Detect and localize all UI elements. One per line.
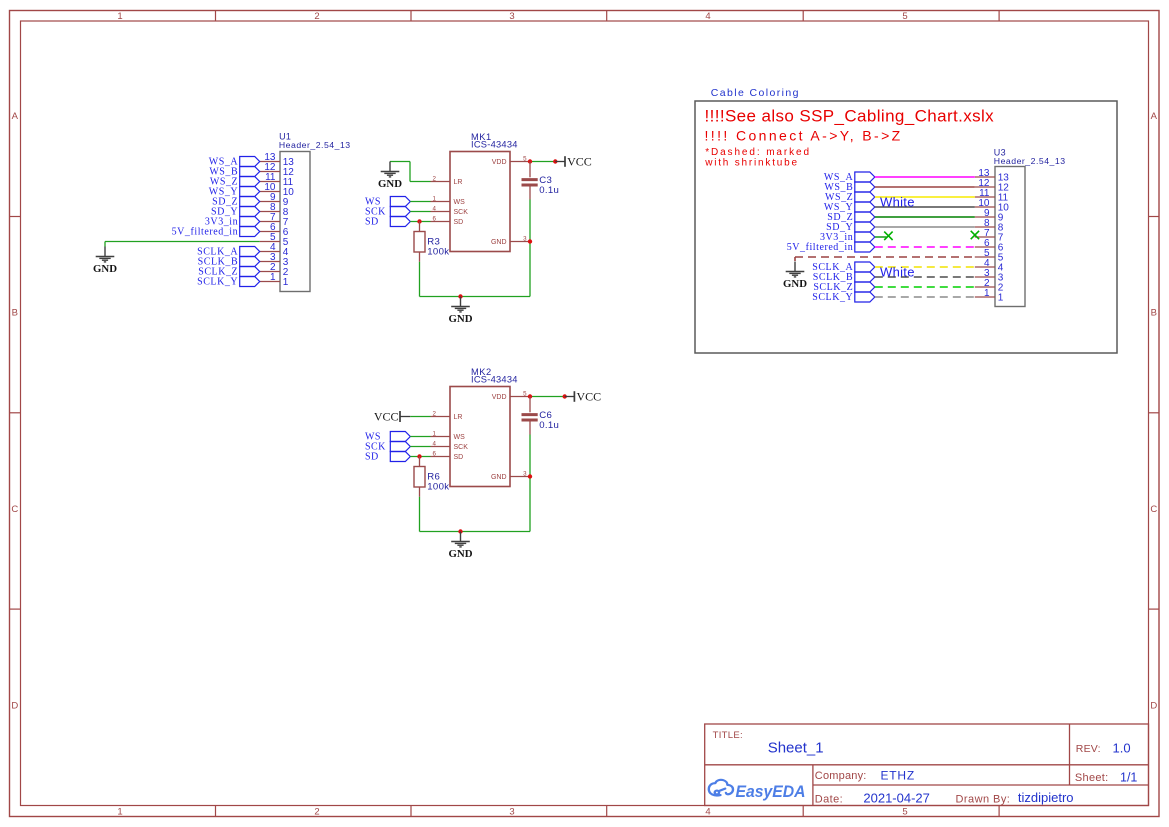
svg-text:3: 3 xyxy=(523,470,527,477)
net label SCLK_Z at U1 pin 2 xyxy=(198,267,259,278)
brown wire pin 12 xyxy=(875,186,975,188)
green dashed wire pin 2 xyxy=(875,286,975,288)
U1 pin 9 xyxy=(260,192,289,208)
U3 pin 6 xyxy=(975,238,1004,254)
U1 pin 5 xyxy=(260,232,289,248)
junction at GND pin xyxy=(528,474,532,478)
U3 pin 4 xyxy=(975,258,1004,274)
svg-text:REV:: REV: xyxy=(1076,743,1101,755)
wire R6 to ground rail xyxy=(419,497,421,532)
svg-text:5: 5 xyxy=(902,807,907,818)
cable coloring box xyxy=(695,101,1117,353)
svg-text:GND: GND xyxy=(449,313,473,325)
MK2 pin 4 SCK xyxy=(431,440,469,451)
svg-text:6: 6 xyxy=(433,450,437,457)
junction at VCC flag xyxy=(553,159,557,163)
wire GND to LR pin xyxy=(390,161,410,163)
svg-text:1.0: 1.0 xyxy=(1113,740,1131,755)
svg-text:6: 6 xyxy=(433,215,437,222)
svg-text:5V_filtered_in: 5V_filtered_in xyxy=(787,242,854,253)
wire VDD to VCC xyxy=(530,161,555,163)
svg-text:B: B xyxy=(12,308,18,319)
power flag VCC at MK1 VDD xyxy=(555,154,591,168)
svg-text:SD: SD xyxy=(365,452,379,463)
ground rail wire xyxy=(420,296,531,298)
net label SCLK_A at U3 pin 4 xyxy=(812,262,875,273)
gray wire pin 8 xyxy=(875,226,975,228)
resistor R3 bottom lead xyxy=(419,252,421,262)
svg-text:GND: GND xyxy=(449,548,473,560)
magenta dashed wire pin 6 xyxy=(875,246,975,248)
power flag VCC at MK2 VDD xyxy=(565,389,601,403)
junction at GND pin xyxy=(528,239,532,243)
capacitor C6 top lead xyxy=(529,397,531,413)
svg-text:1: 1 xyxy=(998,292,1004,303)
svg-text:White: White xyxy=(880,264,915,279)
U1 pin 10 xyxy=(260,182,295,198)
net flag WS at MK1 xyxy=(390,197,410,207)
svg-text:A: A xyxy=(1151,111,1158,122)
power flag VCC at MK2 LR xyxy=(374,409,410,423)
svg-text:5: 5 xyxy=(902,11,907,22)
svg-text:SCLK_Y: SCLK_Y xyxy=(197,277,238,288)
net label SCLK_B at U1 pin 3 xyxy=(198,257,260,268)
U3 pin 8 xyxy=(975,218,1004,234)
svg-text:with shrinktube: with shrinktube xyxy=(704,157,799,168)
svg-text:1: 1 xyxy=(270,272,276,283)
U1 pin 2 xyxy=(260,262,289,278)
junction at VCC flag xyxy=(563,394,567,398)
yellow wire pin 11 xyxy=(875,196,975,198)
title block frame xyxy=(705,724,1149,806)
svg-text:TITLE:: TITLE: xyxy=(713,730,743,741)
svg-text:!!!!See also SSP_Cabling_Chart: !!!!See also SSP_Cabling_Chart.xslx xyxy=(705,106,995,125)
svg-text:C: C xyxy=(11,504,18,515)
MK2 pin 5 VDD xyxy=(492,390,530,401)
wire cap to GND pin and rail xyxy=(529,200,531,297)
connector U1 body xyxy=(280,152,310,292)
wire VCC to LR pin xyxy=(410,416,430,418)
resistor R3 lead xyxy=(419,222,421,232)
svg-text:A: A xyxy=(12,111,19,122)
svg-text:tizdipietro: tizdipietro xyxy=(1018,790,1074,805)
wire WS to MK1 xyxy=(410,201,430,203)
net label 5V_filtered_in at U1 pin 6 xyxy=(172,227,260,238)
net label 3V3_in at U3 pin 7 xyxy=(820,232,875,243)
wire SCK to MK1 xyxy=(410,211,430,213)
net label WS_Y at U3 pin 10 xyxy=(824,202,875,213)
net label SD_Z at U3 pin 9 xyxy=(827,212,875,223)
junction at MK2 SD / R6 xyxy=(417,454,421,458)
ground GND at MK1 LR xyxy=(378,162,402,190)
net label SCLK_B at U3 pin 3 xyxy=(813,272,875,283)
svg-text:4: 4 xyxy=(705,11,710,22)
svg-text:SD: SD xyxy=(365,217,379,228)
U1 pin 4 xyxy=(260,242,289,258)
svg-text:ICS-43434: ICS-43434 xyxy=(471,375,518,385)
svg-text:1: 1 xyxy=(117,11,122,22)
svg-text:White: White xyxy=(880,194,915,209)
U3 pin 3 xyxy=(975,268,1004,284)
svg-text:GND: GND xyxy=(378,178,402,190)
svg-text:5: 5 xyxy=(523,390,527,397)
net label WS_B at U3 pin 12 xyxy=(824,182,874,193)
yellow dashed wire pin 4 xyxy=(875,266,975,268)
short green wire pin 7 with no-connect marks xyxy=(875,236,887,238)
svg-text:4: 4 xyxy=(433,440,437,447)
svg-text:Header_2.54_13: Header_2.54_13 xyxy=(279,140,351,150)
svg-text:WS: WS xyxy=(454,434,466,441)
net flag SCK at MK2 xyxy=(390,442,410,452)
svg-text:VDD: VDD xyxy=(492,394,507,401)
mic MK2 body xyxy=(450,387,510,487)
svg-text:Company:: Company: xyxy=(815,770,867,782)
U3 pin 1 xyxy=(975,288,1004,304)
wire WS to MK2 xyxy=(410,436,430,438)
wire SCK to MK2 xyxy=(410,446,430,448)
svg-text:C: C xyxy=(1150,504,1157,515)
svg-text:3: 3 xyxy=(509,807,514,818)
ground GND below MK1 xyxy=(449,297,473,325)
svg-text:Sheet_1: Sheet_1 xyxy=(768,739,824,756)
svg-text:1: 1 xyxy=(984,288,990,299)
magenta wire pin 13 xyxy=(875,176,975,178)
svg-text:2: 2 xyxy=(433,175,437,182)
svg-text:GND: GND xyxy=(93,263,117,275)
net label 5V_filtered_in at U3 pin 6 xyxy=(787,242,875,253)
wire SD to MK2 xyxy=(410,456,430,458)
MK2 pin 6 SD xyxy=(431,450,464,461)
svg-text:EasyEDA: EasyEDA xyxy=(736,783,806,801)
U1 pin 11 xyxy=(260,172,294,188)
junction at VDD / cap xyxy=(528,394,532,398)
svg-text:D: D xyxy=(11,701,18,712)
junction at rail ground xyxy=(458,529,462,533)
net flag WS at MK2 xyxy=(390,432,410,442)
MK2 pin 1 WS xyxy=(431,430,466,441)
U1 pin 12 xyxy=(260,162,295,178)
net label SCLK_Z at U3 pin 2 xyxy=(813,282,874,293)
svg-text:Header_2.54_13: Header_2.54_13 xyxy=(994,156,1066,166)
svg-text:LR: LR xyxy=(454,414,463,421)
svg-text:*Dashed: marked: *Dashed: marked xyxy=(705,147,811,158)
svg-text:5: 5 xyxy=(523,155,527,162)
MK1 pin 6 SD xyxy=(431,215,464,226)
junction at MK1 SD / R3 xyxy=(417,219,421,223)
svg-text:2: 2 xyxy=(314,807,319,818)
MK2 pin 2 LR xyxy=(431,410,463,421)
U1 pin 3 xyxy=(260,252,289,268)
connector U3 body xyxy=(995,167,1025,307)
resistor R6 body xyxy=(414,467,425,488)
resistor R3 body xyxy=(414,232,425,253)
net label WS_Z at U1 pin 11 xyxy=(210,177,260,188)
svg-text:Drawn By:: Drawn By: xyxy=(956,793,1011,805)
MK1 pin 5 VDD xyxy=(492,155,530,166)
svg-text:1: 1 xyxy=(117,807,122,818)
wire VDD to VCC xyxy=(530,396,565,398)
green wire pin 9 xyxy=(875,216,975,218)
svg-text:SCK: SCK xyxy=(454,209,469,216)
U3 pin 7 xyxy=(975,228,1004,244)
no-connect X left xyxy=(884,232,892,240)
svg-text:1: 1 xyxy=(283,277,289,288)
U3 pin 11 xyxy=(975,188,1009,204)
svg-text:SD: SD xyxy=(454,219,464,226)
capacitor C6 bottom lead xyxy=(529,422,531,435)
U3 pin 9 xyxy=(975,208,1004,224)
junction at rail ground xyxy=(458,294,462,298)
svg-text:SCLK_Y: SCLK_Y xyxy=(812,292,853,303)
svg-text:ETHZ: ETHZ xyxy=(881,768,916,782)
net flag SD at MK2 xyxy=(390,452,410,462)
net label SD_Z at U1 pin 9 xyxy=(212,197,260,208)
MK1 pin 3 GND xyxy=(491,235,530,246)
svg-text:GND: GND xyxy=(491,239,507,246)
U1 pin 6 xyxy=(260,222,289,238)
svg-text:4: 4 xyxy=(705,807,710,818)
gray dashed wire pin 1 xyxy=(875,296,975,298)
wire U1 pin 5 to ground xyxy=(105,241,260,243)
wire SD to MK1 xyxy=(410,221,430,223)
U3 pin 12 xyxy=(975,178,1009,194)
svg-text:1: 1 xyxy=(433,430,437,437)
net label SCLK_A at U1 pin 4 xyxy=(197,247,260,258)
svg-text:GND: GND xyxy=(783,278,807,290)
svg-text:2: 2 xyxy=(433,410,437,417)
U3 pin 2 xyxy=(975,278,1004,294)
svg-text:Date:: Date: xyxy=(815,793,843,805)
ground GND at U1 pin 5 xyxy=(93,247,117,275)
ground GND in cable box xyxy=(783,262,807,290)
wire cap to GND pin and rail xyxy=(529,435,531,532)
svg-text:SCK: SCK xyxy=(454,444,469,451)
net label WS_Y at U1 pin 10 xyxy=(209,187,260,198)
svg-text:ICS-43434: ICS-43434 xyxy=(471,140,518,150)
svg-text:2021-04-27: 2021-04-27 xyxy=(863,790,930,805)
U1 pin 7 xyxy=(260,212,289,228)
svg-text:B: B xyxy=(1151,308,1157,319)
capacitor C3 top lead xyxy=(529,162,531,178)
net label 3V3_in at U1 pin 7 xyxy=(205,217,260,228)
MK2 pin 3 GND xyxy=(491,470,530,481)
wire R3 to ground rail xyxy=(419,262,421,297)
net label WS_A at U3 pin 13 xyxy=(824,172,875,183)
svg-text:3: 3 xyxy=(523,235,527,242)
svg-text:GND: GND xyxy=(491,474,507,481)
net flag SCK at MK1 xyxy=(390,207,410,217)
U3 pin 10 xyxy=(975,198,1009,214)
MK1 pin 1 WS xyxy=(431,195,466,206)
EasyEDA logo xyxy=(709,780,733,796)
resistor R6 lead xyxy=(419,457,421,467)
U1 pin 8 xyxy=(260,202,289,218)
U1 pin 13 xyxy=(260,152,295,168)
svg-text:3: 3 xyxy=(509,11,514,22)
capacitor C6 plates xyxy=(522,413,538,416)
svg-text:VCC: VCC xyxy=(567,154,592,168)
ground GND below MK2 xyxy=(449,532,473,560)
net label WS_B at U1 pin 12 xyxy=(209,167,259,178)
svg-text:0.1u: 0.1u xyxy=(539,420,559,431)
svg-text:!!!! Connect A->Y, B->Z: !!!! Connect A->Y, B->Z xyxy=(705,127,903,143)
net label WS_A at U1 pin 13 xyxy=(209,157,260,168)
dark gray wire pin 10 (White) xyxy=(875,206,975,208)
no-connect X right at pin 7 xyxy=(971,231,979,239)
net label SCLK_Y at U1 pin 1 xyxy=(197,277,260,288)
svg-text:0.1u: 0.1u xyxy=(539,185,559,196)
U3 pin 5 xyxy=(975,248,1004,263)
svg-text:VCC: VCC xyxy=(374,409,399,423)
net flag SD at MK1 xyxy=(390,217,410,227)
net label SD_Y at U1 pin 8 xyxy=(211,207,260,218)
resistor R6 bottom lead xyxy=(419,487,421,497)
svg-text:100k: 100k xyxy=(427,481,449,492)
brown dashed wire pin 5 to ground xyxy=(795,256,975,258)
svg-text:D: D xyxy=(1150,701,1157,712)
U1 pin 1 xyxy=(260,272,289,288)
net label SD_Y at U3 pin 8 xyxy=(826,222,875,233)
svg-text:Sheet:: Sheet: xyxy=(1075,772,1109,784)
svg-text:1: 1 xyxy=(433,195,437,202)
junction at VDD / cap xyxy=(528,159,532,163)
svg-text:LR: LR xyxy=(454,179,463,186)
svg-text:SD: SD xyxy=(454,454,464,461)
svg-text:100k: 100k xyxy=(427,246,449,257)
capacitor C3 bottom lead xyxy=(529,187,531,200)
svg-text:1/1: 1/1 xyxy=(1120,770,1137,784)
svg-text:4: 4 xyxy=(433,205,437,212)
dark gray dashed wire pin 3 (White) xyxy=(875,276,975,278)
svg-text:VCC: VCC xyxy=(577,389,602,403)
svg-text:5V_filtered_in: 5V_filtered_in xyxy=(172,227,239,238)
U3 pin 13 xyxy=(975,168,1009,184)
net label SCLK_Y at U3 pin 1 xyxy=(812,292,875,303)
ground rail wire xyxy=(420,531,531,533)
capacitor C3 plates xyxy=(522,178,538,181)
MK1 pin 4 SCK xyxy=(431,205,469,216)
net label WS_Z at U3 pin 11 xyxy=(825,192,875,203)
svg-text:WS: WS xyxy=(454,199,466,206)
svg-text:Cable Coloring: Cable Coloring xyxy=(711,87,800,99)
mic MK1 body xyxy=(450,152,510,252)
MK1 pin 2 LR xyxy=(431,175,463,186)
svg-text:VDD: VDD xyxy=(492,159,507,166)
svg-text:2: 2 xyxy=(314,11,319,22)
